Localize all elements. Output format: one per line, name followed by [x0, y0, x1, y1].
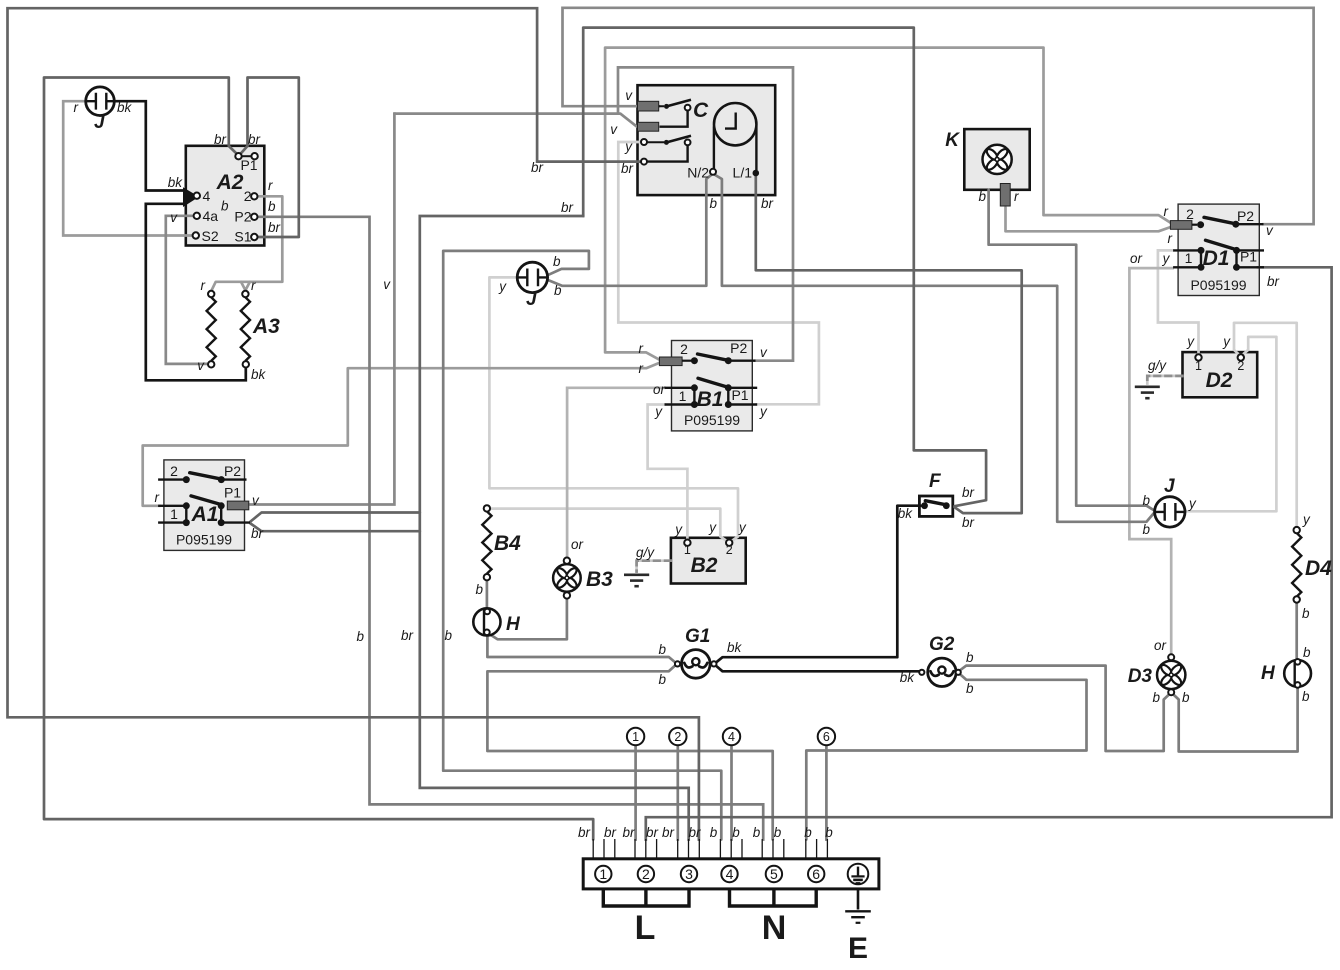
svg-text:B1: B1 [697, 388, 724, 411]
svg-text:K: K [945, 130, 960, 151]
svg-text:b: b [1303, 645, 1311, 660]
svg-text:or: or [571, 537, 584, 552]
terminal block stubs [593, 839, 827, 859]
fan K symbol [983, 145, 1012, 206]
svg-text:J: J [94, 112, 105, 133]
svg-text:E: E [848, 932, 868, 965]
wire bk G1 to F [717, 506, 921, 662]
svg-text:1: 1 [679, 388, 687, 404]
svg-text:b: b [1152, 690, 1160, 705]
svg-text:y: y [738, 520, 747, 535]
switch D1 internals [1170, 217, 1264, 270]
lamp B3 [553, 558, 581, 599]
svg-text:S2: S2 [202, 228, 219, 244]
svg-text:y: y [759, 404, 768, 419]
svg-text:bk: bk [117, 100, 133, 115]
resistor D4 [1292, 527, 1301, 603]
ref circle 2 [669, 728, 686, 745]
wire b D4 to H right [1295, 603, 1298, 659]
svg-text:1: 1 [632, 730, 639, 744]
svg-text:C: C [693, 99, 709, 122]
svg-text:br: br [561, 200, 574, 215]
lamp D3 [1157, 654, 1185, 695]
wire v to C rect2 [394, 114, 636, 127]
svg-text:b: b [356, 629, 364, 644]
wire y D2.2 to D4 [1234, 323, 1297, 527]
svg-text:y: y [1222, 334, 1231, 349]
bridge L pins 1-3 [603, 889, 689, 906]
wire or B1.1 to B3 [567, 388, 664, 558]
svg-text:4: 4 [728, 730, 735, 744]
svg-text:D4: D4 [1305, 557, 1332, 580]
svg-text:H: H [1261, 663, 1276, 684]
svg-text:b: b [710, 825, 718, 840]
svg-text:1: 1 [1195, 359, 1202, 373]
svg-text:4: 4 [726, 866, 734, 882]
wire ref 4 drop [730, 745, 733, 840]
svg-text:2: 2 [1186, 206, 1194, 222]
svg-text:v: v [383, 277, 391, 292]
svg-text:1: 1 [1185, 250, 1193, 266]
svg-text:1: 1 [599, 866, 607, 882]
wire br outer frame C.br to pin3 [8, 8, 699, 839]
wire b G2 to pin6 [806, 675, 1086, 840]
svg-text:2: 2 [244, 188, 252, 204]
box D2 terminals [1195, 354, 1244, 360]
wire b B3 to H [489, 599, 567, 640]
svg-text:4a: 4a [203, 208, 219, 224]
svg-text:y: y [1186, 334, 1195, 349]
ref circle 6 [818, 728, 835, 745]
wire v C rect1 to D1.P2 [563, 8, 1314, 224]
svg-text:r: r [1164, 204, 1169, 219]
svg-text:br: br [214, 132, 227, 147]
wire bk A3 to A2.4 [146, 204, 246, 380]
igniter J right [1155, 497, 1185, 527]
resistor A3 right [241, 291, 250, 368]
switch box D1 [1178, 204, 1259, 295]
wire b K to J right [989, 190, 1154, 510]
svg-text:br: br [621, 161, 634, 176]
earth E lead [845, 889, 871, 923]
terminal block earth pin [848, 864, 869, 885]
svg-text:br: br [688, 825, 701, 840]
svg-text:r: r [155, 490, 160, 505]
svg-text:br: br [1267, 274, 1280, 289]
timer box C [638, 85, 776, 195]
svg-text:G1: G1 [685, 626, 710, 647]
thermostat H left [473, 608, 500, 635]
svg-text:br: br [622, 825, 635, 840]
wire bk J1 to A2.4 [114, 101, 183, 190]
svg-text:r: r [268, 178, 273, 193]
wire br A2.P1 to pin1 [44, 78, 593, 840]
svg-text:r: r [639, 341, 644, 356]
svg-text:b: b [774, 825, 782, 840]
svg-text:J: J [526, 289, 537, 310]
svg-text:b: b [1142, 522, 1150, 537]
svg-text:b: b [221, 199, 229, 214]
svg-text:b: b [966, 681, 974, 696]
terminal block pin 1 [595, 866, 611, 882]
wire b C.N/2 to J right [715, 175, 1153, 522]
svg-text:b: b [978, 189, 986, 204]
svg-text:G2: G2 [929, 634, 955, 655]
svg-text:r: r [639, 361, 644, 376]
switch B1 internals [659, 354, 757, 408]
svg-text:v: v [197, 358, 205, 373]
svg-text:b: b [709, 196, 717, 211]
wire b J mid to C.N/2 [547, 175, 711, 286]
bridge N pins 4-6 [730, 889, 817, 906]
wire br D1.P1 to pin2 [646, 267, 1332, 839]
svg-text:2: 2 [1237, 359, 1244, 373]
svg-text:b: b [804, 825, 812, 840]
wire r A3 right dip [241, 282, 250, 290]
svg-text:br: br [248, 132, 261, 147]
svg-text:br: br [531, 160, 544, 175]
wire v A2.4a to A3 [166, 216, 207, 364]
svg-text:b: b [1142, 493, 1150, 508]
svg-text:P2: P2 [224, 463, 241, 479]
wire y D2.2 to J right [1186, 337, 1277, 511]
wire br A1 fork top [251, 513, 420, 522]
svg-text:v: v [625, 88, 633, 103]
svg-text:B2: B2 [691, 554, 718, 577]
svg-text:2: 2 [726, 543, 733, 557]
svg-text:5: 5 [770, 866, 778, 882]
wire ref 6 drop [825, 745, 828, 840]
ground at D2 [1135, 387, 1160, 398]
svg-text:bk: bk [168, 175, 184, 190]
wire ref 1 drop [634, 745, 637, 840]
svg-text:b: b [753, 825, 761, 840]
svg-text:br: br [578, 825, 591, 840]
resistor B4 [482, 505, 491, 580]
relay box A2 [186, 146, 264, 246]
box B2 terminals [684, 540, 732, 546]
wire b A2.P2 to pin5 [258, 217, 763, 840]
svg-text:P1: P1 [1240, 249, 1257, 265]
svg-text:bk: bk [727, 640, 743, 655]
ref circle 4 [723, 728, 740, 745]
svg-text:bk: bk [251, 367, 267, 382]
terminal block pin 3 [681, 866, 697, 882]
svg-text:B4: B4 [494, 532, 521, 555]
svg-text:g/y: g/y [1148, 358, 1167, 373]
svg-text:P095199: P095199 [684, 412, 740, 428]
svg-text:br: br [962, 515, 975, 530]
svg-text:or: or [1154, 638, 1167, 653]
thermostat H right [1284, 659, 1311, 688]
svg-text:bk: bk [898, 506, 914, 521]
svg-text:J: J [1164, 476, 1175, 497]
svg-text:2: 2 [674, 730, 681, 744]
svg-text:6: 6 [823, 730, 830, 744]
svg-text:S1: S1 [234, 229, 251, 245]
svg-text:2: 2 [680, 341, 688, 357]
terminal block pin 4 [721, 866, 737, 882]
svg-text:v: v [760, 345, 768, 360]
svg-text:br: br [761, 196, 774, 211]
svg-text:br: br [251, 526, 264, 541]
wire y D1.1 to D2.1 [1158, 250, 1199, 354]
svg-text:y: y [1302, 512, 1311, 527]
terminal block pin 6 [808, 866, 824, 882]
igniter J top-left [86, 87, 115, 116]
timer C internals [638, 100, 760, 177]
switch box F [919, 496, 952, 516]
wire br chain to A1 and pin3 [420, 216, 689, 840]
svg-text:D3: D3 [1128, 666, 1153, 687]
switch box B1 [672, 341, 753, 431]
terminal block pin 2 [638, 866, 654, 882]
wire b H to G1 [487, 637, 674, 662]
svg-text:2: 2 [642, 866, 650, 882]
svg-text:B3: B3 [586, 568, 613, 591]
svg-text:g/y: g/y [636, 545, 655, 560]
switch F internals [921, 501, 950, 509]
svg-text:v: v [610, 122, 618, 137]
wire y B1.1 to B2.1 [648, 405, 688, 540]
box D2 [1183, 352, 1258, 397]
svg-text:r: r [251, 278, 256, 293]
terminal block [583, 859, 879, 889]
wire r K to D1.2 [1006, 208, 1171, 232]
suppressor G1 [675, 650, 717, 679]
svg-text:y: y [1188, 496, 1197, 511]
svg-text:P095199: P095199 [1190, 277, 1246, 293]
svg-text:H: H [506, 614, 521, 635]
svg-text:b: b [475, 582, 483, 597]
arrow at A2 terminal 4 [183, 187, 199, 207]
ref circle 1 [627, 728, 644, 745]
wire br A1 fork bottom [251, 524, 420, 532]
wire b J mid to pin4 [443, 251, 721, 840]
ground at B2 [624, 575, 649, 586]
svg-text:P1: P1 [224, 485, 241, 501]
svg-text:b: b [444, 628, 452, 643]
svg-text:b: b [268, 199, 276, 214]
svg-text:br: br [646, 825, 659, 840]
svg-text:L/1: L/1 [733, 165, 753, 181]
wire br C.L/1 to F [756, 177, 1022, 514]
svg-text:b: b [554, 283, 562, 298]
svg-text:4: 4 [203, 188, 211, 204]
suppressor G2 [919, 658, 961, 686]
svg-text:N: N [762, 909, 787, 947]
wire or D1.1 to D3 [1129, 268, 1172, 652]
svg-text:D1: D1 [1203, 247, 1230, 270]
svg-text:L: L [635, 909, 656, 947]
svg-text:y: y [674, 522, 683, 537]
svg-text:y: y [1162, 251, 1171, 266]
svg-text:r: r [1014, 189, 1019, 204]
svg-text:or: or [1130, 251, 1143, 266]
terminal block pin 5 [766, 866, 782, 882]
svg-text:b: b [658, 672, 666, 687]
svg-text:r: r [74, 100, 79, 115]
svg-text:y: y [498, 279, 507, 294]
wire y C.y to B1.P1 [618, 142, 819, 404]
fan box K [964, 129, 1029, 190]
svg-text:v: v [170, 210, 178, 225]
wire v to A1.P1 [251, 114, 395, 505]
svg-text:br: br [962, 485, 975, 500]
wire r A2.2 to A3 [211, 196, 282, 290]
svg-text:br: br [662, 825, 675, 840]
svg-text:bk: bk [900, 670, 916, 685]
svg-text:3: 3 [685, 866, 693, 882]
wire y B4 to B2.2 left [490, 509, 727, 541]
wire b G2 to D3 [961, 666, 1169, 751]
svg-text:2: 2 [170, 463, 178, 479]
wire g/y B2 ground [637, 561, 671, 572]
svg-text:b: b [553, 254, 561, 269]
svg-text:or: or [653, 382, 666, 397]
svg-text:b: b [966, 650, 974, 665]
svg-text:b: b [1182, 690, 1190, 705]
igniter J middle [517, 262, 547, 292]
wire b G1 to pin5 [487, 666, 772, 839]
relay A2 internals [193, 153, 258, 240]
svg-text:r: r [201, 278, 206, 293]
svg-text:b: b [1302, 606, 1310, 621]
svg-text:A1: A1 [191, 503, 219, 526]
svg-text:br: br [268, 220, 281, 235]
wire bk G1 to G2 [717, 667, 919, 672]
svg-text:P1: P1 [731, 387, 748, 403]
wire ref 2 drop [676, 745, 679, 840]
resistor A3 left [207, 291, 216, 368]
wire b B4 to H [486, 581, 489, 608]
svg-text:A2: A2 [216, 171, 244, 194]
switch box A1 [164, 460, 245, 551]
svg-text:r: r [1168, 231, 1173, 246]
svg-text:b: b [1302, 689, 1310, 704]
wire g/y D2 ground [1147, 376, 1182, 384]
svg-text:1: 1 [170, 506, 178, 522]
wire br chain top to F [583, 28, 986, 507]
wire r J to A2.S2 [63, 101, 192, 235]
wire br A2.P1 to A2.S1 [241, 78, 299, 238]
svg-text:P2: P2 [1237, 208, 1254, 224]
wire v B1.P2 to C [618, 67, 793, 360]
svg-text:y: y [624, 139, 633, 154]
wire b D3 to H right [1174, 689, 1298, 752]
switch A1 internals [158, 473, 250, 526]
svg-text:N/2: N/2 [687, 165, 709, 181]
svg-text:br: br [604, 825, 617, 840]
svg-text:D2: D2 [1206, 369, 1233, 392]
wire r B1.2 to A1 [143, 363, 660, 506]
svg-text:b: b [658, 642, 666, 657]
svg-text:y: y [708, 520, 717, 535]
svg-text:P2: P2 [234, 209, 251, 225]
svg-text:6: 6 [812, 866, 820, 882]
svg-text:A3: A3 [252, 315, 280, 338]
svg-text:P2: P2 [730, 340, 747, 356]
svg-text:b: b [732, 825, 740, 840]
svg-text:b: b [825, 825, 833, 840]
box B2 [671, 538, 746, 584]
svg-text:P095199: P095199 [176, 532, 232, 548]
wire y J to B2.2 right [489, 277, 738, 541]
svg-text:y: y [654, 404, 663, 419]
wire r B1.2 to D1.2 [605, 48, 1171, 360]
svg-text:F: F [929, 471, 942, 492]
svg-text:br: br [401, 628, 414, 643]
